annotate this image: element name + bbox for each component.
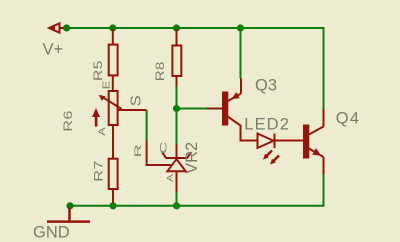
svg-text:R: R [133, 144, 144, 157]
svg-text:E: E [102, 80, 112, 89]
svg-text:S: S [128, 95, 144, 106]
svg-text:R8: R8 [154, 61, 167, 81]
svg-text:A: A [167, 174, 176, 182]
svg-text:R7: R7 [92, 160, 105, 182]
svg-text:R5: R5 [91, 60, 105, 81]
svg-text:C: C [157, 142, 168, 154]
svg-text:LED2: LED2 [244, 116, 290, 134]
svg-text:A: A [98, 127, 108, 136]
svg-text:GND: GND [33, 224, 70, 242]
svg-text:VR2: VR2 [183, 142, 201, 174]
svg-text:Q4: Q4 [336, 110, 360, 128]
svg-text:V+: V+ [43, 41, 64, 59]
svg-text:R6: R6 [62, 110, 75, 132]
svg-text:Q3: Q3 [255, 77, 277, 95]
